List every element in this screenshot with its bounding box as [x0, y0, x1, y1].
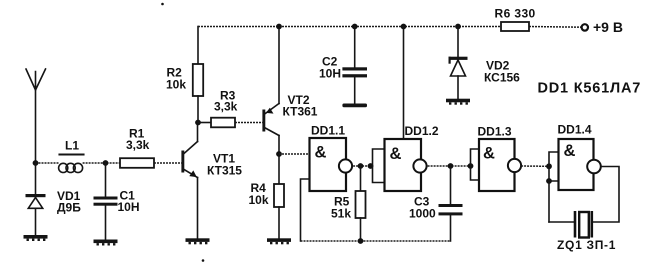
node R5 top — [358, 163, 364, 169]
svg-text:10Н: 10Н — [319, 67, 341, 81]
transistor VT1 — [181, 142, 197, 178]
node R2/R3/VT1 — [195, 120, 201, 126]
gate DD1.1 — [310, 138, 353, 191]
svg-text:L1: L1 — [65, 139, 79, 153]
svg-text:DD1.3: DD1.3 — [478, 125, 512, 139]
resistor R4 — [274, 184, 284, 207]
svg-text:3,3k: 3,3k — [214, 100, 238, 114]
svg-text:DD1.1: DD1.1 — [311, 124, 345, 138]
node DD1.3 input — [468, 163, 474, 169]
capacitor C3 — [439, 166, 463, 241]
wire L1 to C1 node — [83, 162, 120, 164]
svg-text:1000: 1000 — [409, 207, 436, 221]
wire DD1.2 output — [428, 165, 471, 167]
wire DD1.1 input 2 stub — [301, 179, 310, 241]
svg-text:10k: 10k — [249, 193, 269, 207]
resistor R6 — [501, 22, 529, 31]
svg-text:10k: 10k — [166, 78, 186, 92]
svg-text:+9 В: +9 В — [593, 19, 623, 35]
resistor R1 — [120, 158, 154, 168]
diode VD1 — [26, 163, 46, 236]
wire main row — [36, 162, 60, 164]
wire DD1.4 output loop — [592, 167, 619, 223]
wire VT1 collector — [197, 123, 199, 142]
wire DD1.4 input bar — [549, 152, 559, 222]
node C3 top — [448, 163, 454, 169]
inductor L1 — [59, 155, 84, 173]
svg-text:КТ315: КТ315 — [207, 164, 242, 178]
svg-text:ZQ1 ЗП-1: ZQ1 ЗП-1 — [557, 238, 616, 252]
wire feedback bottom — [301, 240, 451, 242]
svg-text:&: & — [315, 144, 327, 162]
wire DD1.3 input bar — [471, 149, 480, 180]
node DD1.4 input 2 — [546, 178, 552, 184]
speck artifact top — [161, 3, 164, 6]
ground (VT1) — [186, 238, 210, 244]
ground (VD1) — [24, 235, 48, 241]
node rail/C2 — [352, 24, 358, 30]
svg-text:10Н: 10Н — [118, 200, 140, 214]
svg-text:&: & — [483, 145, 495, 163]
wire R1 to VT1 base — [154, 162, 181, 164]
node DD1.2 input — [368, 163, 374, 169]
speck artifact bottom — [202, 259, 205, 262]
ground (VD2) — [446, 99, 470, 105]
svg-text:&: & — [390, 145, 402, 163]
node DD1.4 input 1 — [546, 163, 552, 169]
wire VT1 emitter to ground — [197, 178, 199, 240]
wire DD1.2 power from rail — [403, 27, 405, 140]
node R5 bottom — [358, 238, 364, 244]
wire VT2 emitter to rail — [278, 27, 280, 104]
svg-text:КС156: КС156 — [484, 71, 520, 85]
resistor R2 — [193, 27, 203, 123]
gate DD1.4 — [559, 139, 601, 190]
svg-text:&: & — [564, 142, 576, 160]
svg-text:DD1.4: DD1.4 — [558, 123, 592, 137]
svg-text:3,3k: 3,3k — [126, 138, 150, 152]
wire DD1.3 output — [521, 165, 549, 167]
ground (C1) — [94, 240, 118, 246]
ground (R4) — [267, 238, 291, 244]
node antenna junction — [33, 160, 39, 166]
capacitor C1 — [94, 163, 118, 240]
node rail/VD2 — [455, 24, 461, 30]
resistor R5 — [356, 166, 366, 241]
wire VT2 collector down — [278, 136, 280, 185]
node rail/DD1.2 power — [401, 24, 407, 30]
svg-text:DD1 К561ЛА7: DD1 К561ЛА7 — [538, 81, 642, 97]
resistor R3 — [198, 118, 262, 128]
wire DD1.1 output — [353, 165, 372, 167]
gate DD1.2 — [385, 139, 427, 191]
svg-text:DD1.2: DD1.2 — [405, 124, 439, 138]
wire R4 to ground — [278, 207, 280, 239]
wire ZQ1 left — [549, 221, 575, 223]
terminal +9V — [582, 24, 588, 30]
svg-text:51k: 51k — [331, 207, 351, 221]
wire to DD1.1 input 1 — [279, 153, 310, 155]
node C1 junction — [103, 160, 109, 166]
wire top supply rail — [198, 26, 582, 29]
gate DD1.3 — [479, 139, 521, 191]
node VT2 collector / DD1.1 input — [276, 151, 282, 157]
svg-text:Д9Б: Д9Б — [57, 201, 81, 215]
capacitor C2 — [342, 27, 367, 104]
svg-text:КТ361: КТ361 — [283, 105, 318, 119]
piezo ZQ1 — [575, 211, 592, 238]
zener diode VD2 — [449, 27, 468, 99]
antenna — [26, 69, 46, 163]
wire DD1.2 input bar — [373, 149, 385, 183]
ground (C2) — [342, 104, 367, 108]
svg-text:R6 330: R6 330 — [495, 7, 536, 21]
transistor VT2 — [262, 104, 279, 136]
node rail/VT2 — [276, 24, 282, 30]
